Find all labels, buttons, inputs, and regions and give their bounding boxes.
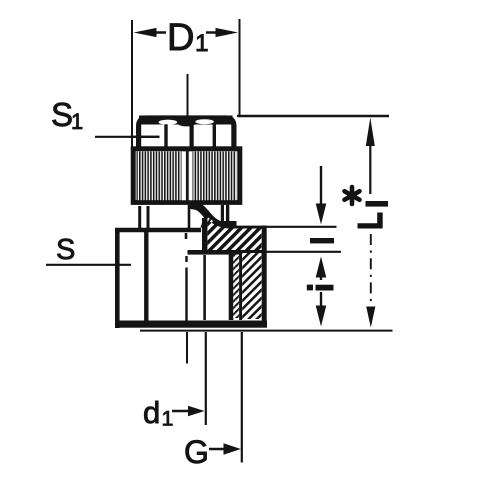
svg-text:1: 1 bbox=[195, 30, 209, 57]
tube cone outline (S-curve) bbox=[193, 206, 228, 227]
nut facet divider right bbox=[213, 124, 216, 149]
flange bottom extension line bbox=[267, 251, 342, 253]
nut cap chamfer notch left bbox=[159, 120, 178, 125]
svg-text:S: S bbox=[51, 96, 73, 133]
label L1 rotated: digit 1 bbox=[366, 201, 389, 207]
L1 top extension line bbox=[237, 115, 389, 118]
body bottom thick edge bbox=[115, 321, 267, 328]
center line in body (solid) bbox=[185, 268, 187, 322]
shoulder extension line to dimension bbox=[267, 226, 337, 228]
nut neck right outer wall bbox=[226, 205, 229, 222]
asterisk bbox=[345, 187, 360, 204]
svg-text:1: 1 bbox=[162, 407, 174, 431]
L1 dash-dot line bbox=[370, 234, 372, 312]
leader line from S1 to nut bbox=[95, 136, 159, 138]
bottom extension line bbox=[140, 330, 393, 332]
svg-text:G: G bbox=[184, 434, 209, 470]
d1 arrow bbox=[172, 406, 205, 417]
knurled ring fill lines bbox=[137, 152, 237, 201]
svg-text:S: S bbox=[56, 234, 75, 266]
body shoulder top edge right bbox=[230, 226, 267, 229]
lower dimension down arrow bbox=[316, 292, 327, 327]
dimension D1 right extension line bbox=[239, 19, 241, 116]
L1 dimension down arrow bbox=[366, 307, 375, 328]
center line below body bbox=[186, 332, 188, 364]
nut facet divider center bbox=[190, 123, 194, 149]
neck-shoulder junction blob bbox=[220, 221, 237, 229]
G arrow bbox=[209, 443, 241, 454]
nut neck right inner wall bbox=[221, 205, 224, 226]
tube cone hatched tip bbox=[201, 213, 218, 229]
hex body left edge bbox=[115, 230, 120, 329]
d1 extension line below body bbox=[205, 332, 207, 425]
lower dimension dash bbox=[316, 285, 334, 291]
nut neck left outer wall bbox=[138, 206, 141, 231]
step dimension down arrow bbox=[316, 166, 327, 225]
step dimension value dash bbox=[310, 238, 334, 243]
L1 dimension up arrow bbox=[366, 118, 375, 195]
upper hatched flange lobe bbox=[208, 220, 262, 251]
hex body facet line bbox=[144, 231, 148, 323]
nut cap facet bump center bbox=[178, 121, 195, 127]
body right edge bbox=[262, 226, 267, 322]
center line through neck bbox=[188, 205, 191, 228]
svg-text:D: D bbox=[167, 17, 194, 59]
body wall hatch column bbox=[242, 253, 261, 319]
dimension D1 left arrow bbox=[134, 28, 167, 37]
center line in body (dashes) bbox=[185, 256, 187, 262]
flange lobe bottom thick edge bbox=[188, 250, 267, 255]
nut cap (hex dome) outline bbox=[139, 118, 234, 149]
leader line tip inside left facet bbox=[130, 136, 160, 138]
nut facet divider left bbox=[164, 124, 167, 149]
knurl center white gaps bbox=[182, 152, 193, 201]
body top edge bbox=[115, 228, 201, 233]
label L1 rotated: letter L bbox=[358, 213, 383, 229]
G extension line below body bbox=[241, 332, 243, 463]
center line in body (dash upper) bbox=[185, 233, 188, 239]
nut neck left inner wall bbox=[147, 206, 150, 231]
svg-text:1: 1 bbox=[71, 109, 83, 134]
lower dimension dot bbox=[307, 285, 313, 291]
bore line d1 inside body bbox=[203, 255, 206, 320]
vertical center line above nut bbox=[187, 74, 189, 118]
nut cap chamfer notch right bbox=[195, 119, 213, 124]
dimension D1 left extension line bbox=[131, 20, 133, 149]
center line through knurl bbox=[186, 151, 189, 201]
thread zone fine hatch bbox=[233, 255, 239, 319]
dimension D1 right arrow bbox=[206, 28, 238, 37]
step dimension up arrow bbox=[316, 257, 327, 281]
thread root heavy line bbox=[229, 255, 234, 321]
S leader line bbox=[46, 264, 131, 266]
nut cap top bar bbox=[139, 116, 233, 125]
svg-text:d: d bbox=[143, 395, 160, 430]
flange lobe left boundary bbox=[202, 218, 207, 252]
knurled ring of nut: border bbox=[133, 149, 240, 203]
thread outer line G bbox=[239, 253, 242, 320]
